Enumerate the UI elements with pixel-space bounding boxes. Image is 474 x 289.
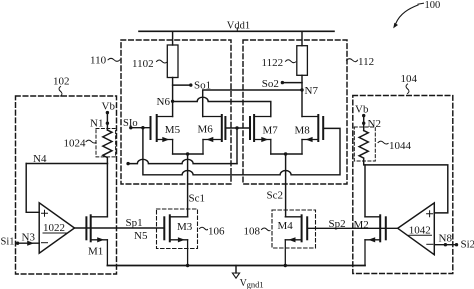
svg-text:Vb: Vb xyxy=(355,104,369,116)
node N4 wire xyxy=(26,153,107,165)
transistor M7 xyxy=(250,115,271,154)
M6 M7 gate tie wire xyxy=(225,126,250,163)
dashed box 110 xyxy=(121,40,231,184)
svg-text:104: 104 xyxy=(401,73,418,85)
svg-text:Si2: Si2 xyxy=(461,238,474,250)
wire M4 gate to M2 gate and op-amp output (node Sp2) xyxy=(307,227,398,229)
transistor M8 xyxy=(302,115,323,154)
figure label 100 with curved leader arrow xyxy=(393,0,440,28)
M5 M6 shared source join xyxy=(173,152,203,155)
ground rail Vgnd1 xyxy=(107,264,365,267)
svg-text:M1: M1 xyxy=(88,246,103,258)
resistor 1024 zigzag xyxy=(103,130,112,164)
svg-text:108: 108 xyxy=(244,225,261,237)
node N2 xyxy=(362,118,381,130)
svg-text:1022: 1022 xyxy=(43,222,65,234)
wire N4 down to M1 drain xyxy=(106,164,108,217)
wire N7 down to M8 drain xyxy=(301,90,303,117)
svg-text:gnd1: gnd1 xyxy=(247,280,264,289)
node So1 stub xyxy=(173,79,212,91)
feedback wire resistor bottom to op-amp plus input xyxy=(365,165,448,213)
Vdd1 power rail xyxy=(139,30,334,32)
resistor 1102 xyxy=(167,31,178,101)
Vdd1 label tick xyxy=(236,28,238,32)
svg-text:Vb: Vb xyxy=(102,101,116,113)
svg-text:Si1: Si1 xyxy=(1,237,15,248)
transistor M6 xyxy=(203,115,226,154)
node Sc2 wire down to M4 xyxy=(267,154,286,217)
svg-text:N2: N2 xyxy=(368,118,381,130)
node N1 xyxy=(90,118,109,130)
resistor 1044 zigzag xyxy=(359,131,368,165)
transistor M1 xyxy=(86,215,107,265)
label 1024 xyxy=(64,137,97,149)
wire M6 drain to N7 xyxy=(203,90,302,117)
ground symbol xyxy=(232,266,239,279)
dashed box 106 xyxy=(157,209,198,249)
svg-text:N5: N5 xyxy=(134,230,148,242)
label 108 xyxy=(244,225,271,237)
svg-text:N8: N8 xyxy=(439,233,453,245)
dashed box 104 xyxy=(353,96,453,274)
svg-text:100: 100 xyxy=(425,0,441,11)
label 1122 xyxy=(262,57,296,69)
svg-text:So2: So2 xyxy=(262,78,279,90)
label 104 xyxy=(401,73,418,93)
label 102 xyxy=(53,76,70,97)
op-amp 1042 xyxy=(398,203,435,255)
svg-text:N4: N4 xyxy=(33,153,47,165)
wire SIo down to M8 gate with humps over Sc1 Sc2 xyxy=(143,128,340,175)
Vb terminal right xyxy=(355,104,369,131)
svg-text:N3: N3 xyxy=(22,232,36,244)
label 106 xyxy=(200,226,226,238)
svg-text:Sp1: Sp1 xyxy=(126,217,143,229)
node N8 and input Si2 xyxy=(434,233,474,251)
wire N6 to M7 drain with hump over M6 drain xyxy=(173,97,271,116)
node Sc1 wire down to M3 xyxy=(188,154,205,217)
label 1102 xyxy=(132,58,167,70)
svg-text:M7: M7 xyxy=(263,125,279,137)
svg-text:102: 102 xyxy=(53,76,70,88)
inverting input wire to M6 M7 gates with humps xyxy=(126,159,237,165)
svg-text:Sp2: Sp2 xyxy=(329,218,346,230)
svg-text:N7: N7 xyxy=(305,85,319,97)
svg-text:Vdd1: Vdd1 xyxy=(227,20,250,31)
svg-text:Sc2: Sc2 xyxy=(267,190,284,202)
svg-text:112: 112 xyxy=(358,56,374,68)
svg-text:Sc1: Sc1 xyxy=(189,193,206,205)
dashed box 108 xyxy=(272,210,316,248)
node So2 stub xyxy=(262,78,302,90)
wire N6 down to M5 drain xyxy=(172,101,174,116)
svg-text:M4: M4 xyxy=(278,220,294,232)
transistor M5 xyxy=(151,115,173,154)
Vb terminal left xyxy=(102,101,116,130)
node N7 xyxy=(300,85,318,97)
svg-text:M3: M3 xyxy=(177,221,193,233)
dashed box around 1044 xyxy=(354,127,375,161)
svg-text:M5: M5 xyxy=(165,124,181,136)
label 112 xyxy=(347,56,375,68)
label 1044 xyxy=(378,140,412,152)
dashed box 102 xyxy=(16,96,117,274)
svg-text:N1: N1 xyxy=(90,118,103,130)
op-amp 1022 xyxy=(39,203,74,253)
svg-text:1122: 1122 xyxy=(262,57,284,69)
svg-text:N6: N6 xyxy=(157,96,171,108)
svg-text:1024: 1024 xyxy=(64,137,87,149)
svg-text:1044: 1044 xyxy=(389,140,412,152)
svg-text:1042: 1042 xyxy=(409,224,431,236)
svg-text:M2: M2 xyxy=(354,219,369,231)
input SIo xyxy=(123,118,151,130)
svg-text:1102: 1102 xyxy=(132,58,154,70)
feedback wire to op-amp plus input xyxy=(26,164,39,213)
svg-text:106: 106 xyxy=(208,226,225,238)
svg-text:110: 110 xyxy=(90,55,107,67)
wire M2 drain up to resistor 1044 xyxy=(364,165,366,217)
dashed box 112 xyxy=(243,40,347,184)
svg-text:M6: M6 xyxy=(198,124,214,136)
input Si1 xyxy=(1,237,40,248)
node N6 xyxy=(157,96,175,108)
label Vgnd1 xyxy=(240,278,264,289)
label 110 xyxy=(90,55,120,67)
wire op-amp output to M3 gate (node Sp1 N5) xyxy=(75,227,165,229)
M7 M8 shared source join xyxy=(271,152,302,155)
transistor M2 xyxy=(365,215,386,265)
transistor M3 xyxy=(164,215,187,265)
transistor M4 xyxy=(285,215,307,265)
dashed box around 1024 xyxy=(96,129,116,157)
resistor 1122 xyxy=(297,31,308,90)
svg-text:M8: M8 xyxy=(295,125,311,137)
